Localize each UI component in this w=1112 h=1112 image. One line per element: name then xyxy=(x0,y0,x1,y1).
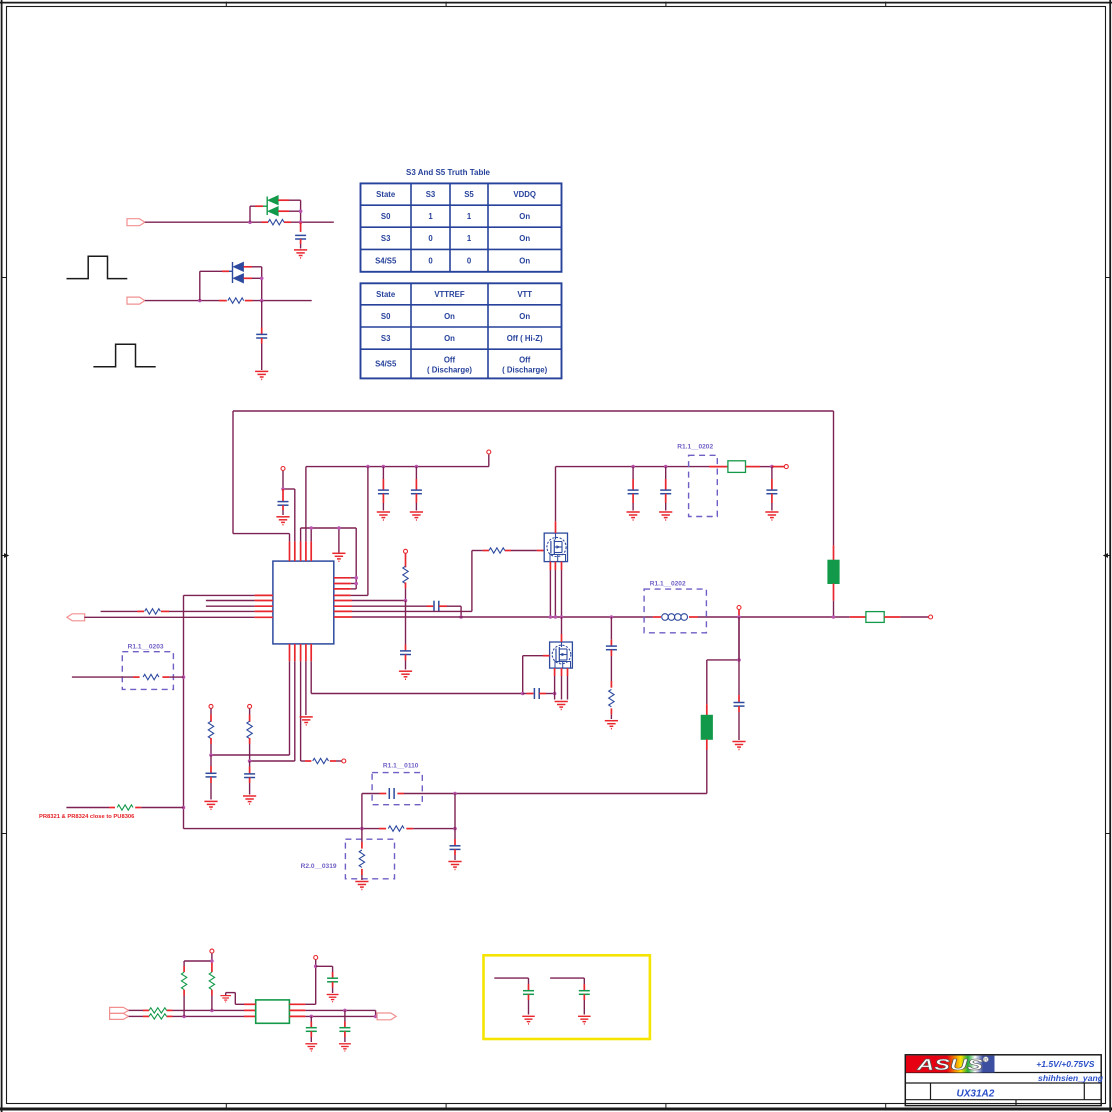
mosfet Q1 xyxy=(544,533,567,562)
IC PU8306 body (green) xyxy=(256,1000,290,1023)
IC right row3 xyxy=(334,588,356,590)
capacitor CA xyxy=(295,222,306,248)
svg-text:S0: S0 xyxy=(381,212,391,221)
junction Q1c xyxy=(560,615,564,619)
junction PUe xyxy=(310,1015,314,1019)
junction R5 xyxy=(404,599,408,603)
capacitor chain1 xyxy=(206,755,217,800)
junction F3 xyxy=(453,827,457,831)
svg-text:S0: S0 xyxy=(381,312,391,321)
svg-text:ASUS: ASUS xyxy=(915,1057,984,1074)
junction A3 xyxy=(299,220,303,224)
wire left row1 xyxy=(184,594,273,596)
junction B1 xyxy=(198,299,202,303)
wire bus to output xyxy=(850,616,866,618)
capacitor CB xyxy=(256,301,267,370)
IC top pin 3 wire xyxy=(301,528,357,561)
IC top pin 1 wire / loop xyxy=(233,411,834,561)
ground V2 xyxy=(377,512,390,520)
ground B xyxy=(255,371,268,379)
junction Q1a xyxy=(549,615,553,619)
wire gate drive bus xyxy=(311,693,523,695)
junction PUa xyxy=(182,1015,186,1019)
junction B2 xyxy=(260,277,264,281)
svg-text:1: 1 xyxy=(428,212,433,221)
resistor R1.1__0202 box1 xyxy=(677,444,717,517)
junction M4 xyxy=(832,615,836,619)
svg-text:0: 0 xyxy=(467,256,472,265)
svg-text:0: 0 xyxy=(428,234,433,243)
svg-text:S3: S3 xyxy=(381,234,391,243)
wire right pins riser xyxy=(355,528,357,589)
IC bottom pin3 wire xyxy=(301,644,342,761)
svg-text:On: On xyxy=(519,256,530,265)
svg-text:PR8321 & PR8324 close to PU830: PR8321 & PR8324 close to PU8306 xyxy=(39,814,135,820)
junction PUg xyxy=(374,1015,378,1019)
resistor left row4 xyxy=(145,609,161,614)
svg-text:( Discharge): ( Discharge) xyxy=(502,365,547,374)
wire left row5 xyxy=(84,616,273,618)
IC bottom pin2 wire xyxy=(250,644,295,761)
junction V2 xyxy=(382,465,386,469)
svg-text:Off: Off xyxy=(519,355,531,364)
capacitor PU out1 (green) xyxy=(306,1016,317,1042)
junction P1 xyxy=(281,487,285,491)
svg-text:On: On xyxy=(519,312,530,321)
wire P11 xyxy=(315,960,317,967)
junction V3 xyxy=(415,465,419,469)
wire left row4 xyxy=(101,610,273,612)
wire to terminal xyxy=(772,466,784,468)
resistor bottom3 xyxy=(313,758,329,763)
ground chain2 xyxy=(243,796,256,804)
ground A xyxy=(294,250,307,258)
capacitor C-M2 xyxy=(734,617,745,740)
mosfet Q2 source wires xyxy=(555,668,568,699)
wire fb top xyxy=(362,793,707,795)
wire PU out top xyxy=(289,966,315,1004)
svg-text:On: On xyxy=(444,334,455,343)
IC bottom pin4 wire xyxy=(305,644,307,715)
wire feedback branch xyxy=(707,617,739,715)
wire output end xyxy=(884,616,928,618)
junction PUb xyxy=(210,1009,214,1013)
svg-text:State: State xyxy=(376,290,396,299)
wire PU out mid xyxy=(289,1010,375,1016)
svg-text:R1.1__0202: R1.1__0202 xyxy=(677,444,713,451)
pullup chain 2 xyxy=(247,709,252,761)
capacitor C-V6 xyxy=(660,467,671,511)
svg-text:On: On xyxy=(519,234,530,243)
svg-text:0: 0 xyxy=(428,256,433,265)
svg-text:R1.1__0203: R1.1__0203 xyxy=(128,644,164,651)
wire FB1 to bus xyxy=(833,584,835,618)
capacitor C-V5 xyxy=(628,467,639,511)
svg-text:Off: Off xyxy=(444,355,456,364)
power terminal P10 xyxy=(210,949,214,953)
pullup resistors PU (green) xyxy=(181,953,214,1016)
IC right row2 xyxy=(334,583,356,585)
truth table 1 xyxy=(361,183,562,271)
IC bottom pin1 wire xyxy=(211,644,290,755)
wire left bus vertical xyxy=(183,595,185,828)
ferrite bead FB2 (green) xyxy=(701,715,712,739)
IC right row4 xyxy=(334,467,368,596)
capacitor Y1 (green) xyxy=(494,978,534,1014)
junction R1 xyxy=(354,576,358,580)
svg-text:R: R xyxy=(984,1057,987,1062)
junction T2 xyxy=(337,526,341,530)
IC top pin 5 wire xyxy=(310,528,312,561)
junction V1 xyxy=(366,465,370,469)
IC right row5 xyxy=(334,600,406,602)
junction G1 xyxy=(521,692,525,696)
wire rail stub red xyxy=(709,466,728,468)
svg-text:VTTREF: VTTREF xyxy=(434,290,465,299)
IC right row7 gate net xyxy=(334,551,544,612)
junction A2 xyxy=(299,209,303,213)
mosfet Q1 source wires xyxy=(550,562,561,617)
power terminal P5 xyxy=(737,606,741,610)
ground stub T xyxy=(338,528,340,553)
svg-text:Off ( Hi-Z): Off ( Hi-Z) xyxy=(507,334,543,343)
svg-text:VTT: VTT xyxy=(517,290,532,299)
junction PUd xyxy=(314,965,318,969)
dual diode DB (blue) xyxy=(233,262,261,300)
junction Q1b xyxy=(554,615,558,619)
ground V5 xyxy=(627,512,640,520)
wire close-to net xyxy=(66,807,183,809)
resistor RB xyxy=(228,298,244,303)
resistor R2.0__0319 chain xyxy=(301,794,395,881)
IC right row8 main bus xyxy=(334,616,850,618)
capacitor C-V2 xyxy=(378,467,389,511)
inductor L1 R1.1__0202 box2 xyxy=(644,580,706,633)
resistor gate Q1 xyxy=(489,548,505,553)
IC U1 body xyxy=(273,561,334,644)
capacitor Y2 (green) xyxy=(550,978,590,1014)
output port arrow PU xyxy=(377,1013,396,1020)
svg-text:R1.1__0202: R1.1__0202 xyxy=(650,580,686,587)
junction V6 xyxy=(664,465,668,469)
svg-text:S3: S3 xyxy=(381,334,391,343)
wire FB2 down xyxy=(706,739,708,793)
wire Q1 drain xyxy=(555,467,557,533)
svg-text:S5: S5 xyxy=(464,190,474,199)
svg-text:+1.5V/+0.75VS: +1.5V/+0.75VS xyxy=(1036,1059,1095,1069)
mosfet Q2 xyxy=(550,642,573,668)
cap+res chain mid xyxy=(606,617,617,719)
pullup chain 1 xyxy=(208,709,213,755)
truth table 2 xyxy=(361,283,562,378)
power terminal P6 xyxy=(929,615,933,619)
svg-text:State: State xyxy=(376,190,396,199)
svg-text:shihhsien_yang: shihhsien_yang xyxy=(1038,1073,1104,1083)
resistor chain P3 xyxy=(403,554,408,601)
junction T1 xyxy=(309,526,313,530)
ground V4 xyxy=(765,512,778,520)
junction PUf xyxy=(343,1009,347,1013)
junction L2 xyxy=(182,806,186,810)
wire PU out bottom xyxy=(289,1015,377,1017)
ground PU out1 xyxy=(305,1044,317,1051)
wire diode branch B xyxy=(200,262,233,301)
power terminal P8 xyxy=(209,704,213,708)
ground PU top xyxy=(327,995,339,1002)
power terminal P2 xyxy=(487,450,491,454)
capacitor C-P1 xyxy=(278,489,289,515)
svg-text:S4/S5: S4/S5 xyxy=(375,256,397,265)
power terminal P11 xyxy=(314,956,318,960)
junction M2 xyxy=(737,615,741,619)
ground Y2 xyxy=(578,1016,591,1024)
svg-text:R1.1__0110: R1.1__0110 xyxy=(383,763,419,770)
junction B3 xyxy=(260,299,264,303)
dual diode DA (green) xyxy=(268,196,301,223)
wire Q2 gate xyxy=(523,656,550,694)
wire fb bottom xyxy=(184,828,456,830)
resistor PU row1 (green) xyxy=(149,1008,167,1013)
input port arrow A xyxy=(127,219,145,226)
resistor close-to (green) xyxy=(117,805,133,810)
junction F2 xyxy=(360,827,364,831)
power terminal P4 xyxy=(784,465,788,469)
wire rail right end xyxy=(760,466,772,468)
inductor L3 (green box) xyxy=(866,612,884,623)
small ground PU xyxy=(220,993,255,1005)
wire left row2 stub xyxy=(206,600,273,602)
wire PU row2 xyxy=(129,1015,256,1017)
svg-text:S3: S3 xyxy=(426,190,436,199)
junction A1 xyxy=(248,220,252,224)
svg-text:S4/S5: S4/S5 xyxy=(375,360,397,369)
capacitor C-V3 xyxy=(411,467,422,511)
output port arrow left xyxy=(67,614,85,621)
power terminal P3 xyxy=(404,549,408,553)
capacitor chain2 xyxy=(244,761,255,795)
IC top pin 4 wire xyxy=(305,467,307,561)
junction M1 xyxy=(610,615,614,619)
pulse waveform 1 xyxy=(67,256,128,278)
wire net B xyxy=(145,300,312,302)
ground M2 xyxy=(732,742,745,750)
junction M3 xyxy=(737,658,741,662)
input port arrows PU xyxy=(110,1007,129,1019)
capacitor F3 chain xyxy=(450,794,461,861)
svg-text:On: On xyxy=(519,212,530,221)
svg-text:( Discharge): ( Discharge) xyxy=(427,365,472,374)
ground F2 xyxy=(355,882,368,890)
ground Y1 xyxy=(522,1016,535,1024)
ground F3 xyxy=(448,862,461,870)
ground R5 xyxy=(399,671,412,679)
IC bottom pin5 wire xyxy=(310,644,312,694)
junction PUc xyxy=(210,959,214,963)
junction V4 xyxy=(770,465,774,469)
ASUS logo xyxy=(906,1056,995,1074)
resistor R1.1__0203 xyxy=(72,644,184,690)
wire diode branch A xyxy=(250,197,267,223)
capacitor PU out2 (green) xyxy=(339,1010,350,1042)
svg-text:VDDQ: VDDQ xyxy=(513,190,536,199)
junction F1 xyxy=(453,792,457,796)
power terminal P7 xyxy=(342,759,346,763)
ground T xyxy=(332,553,345,561)
capacitor C-V4 xyxy=(766,467,777,511)
ground pin4 xyxy=(300,717,313,725)
capacitor C-R5 xyxy=(400,601,411,670)
junction R6 xyxy=(459,615,463,619)
option box (yellow) xyxy=(484,955,650,1039)
title block frame xyxy=(905,1055,1101,1106)
wire Q2 drain xyxy=(561,617,563,642)
svg-text:UX31A2: UX31A2 xyxy=(957,1088,995,1099)
junction V5 xyxy=(631,465,635,469)
power terminal P9 xyxy=(248,704,252,708)
ground V6 xyxy=(659,512,672,520)
junction R2 xyxy=(354,582,358,586)
ground chain1 xyxy=(204,801,217,809)
IC right row6 with coupling cap xyxy=(334,601,461,617)
svg-text:1: 1 xyxy=(467,212,472,221)
IC top pin 2 wire xyxy=(283,489,295,561)
wire net A xyxy=(145,221,334,223)
ground M1 xyxy=(605,721,618,729)
ground PU out2 xyxy=(339,1044,351,1051)
coupling capacitor C-G xyxy=(523,688,555,699)
ground Q2 xyxy=(555,702,568,710)
wire P1 xyxy=(282,471,284,489)
junction PU2 xyxy=(248,759,252,763)
junction G2 xyxy=(553,692,557,696)
junction L1 xyxy=(182,675,186,679)
junction PU1 xyxy=(209,753,213,757)
svg-text:On: On xyxy=(444,312,455,321)
resistor PU row2 (green) xyxy=(149,1014,167,1019)
svg-text:R2.0__0319: R2.0__0319 xyxy=(301,863,337,870)
wire VTT rail right xyxy=(556,466,710,468)
pulse waveform 2 xyxy=(93,344,155,366)
resistor fb xyxy=(388,826,404,831)
power terminal P1 xyxy=(281,467,285,471)
svg-text:1: 1 xyxy=(467,234,472,243)
input port arrow B xyxy=(127,297,145,304)
wire left row3 stub xyxy=(206,605,273,607)
ground P1 xyxy=(276,517,289,525)
wire rail stub red2 xyxy=(746,466,761,468)
capacitor PU top (green) xyxy=(316,966,338,993)
inductor L2 (green box) xyxy=(728,461,746,473)
wire PU row1 xyxy=(129,1009,256,1011)
resistor RA xyxy=(268,220,284,225)
ferrite bead FB1 (green) xyxy=(828,560,839,583)
capacitor R1.1__0110 xyxy=(372,763,422,805)
IC right row1 xyxy=(334,577,356,579)
svg-text:S3 And S5 Truth Table: S3 And S5 Truth Table xyxy=(406,168,491,177)
wire P5 stub xyxy=(738,610,740,617)
ground V3 xyxy=(410,512,423,520)
wire VCC rail left xyxy=(306,454,489,466)
